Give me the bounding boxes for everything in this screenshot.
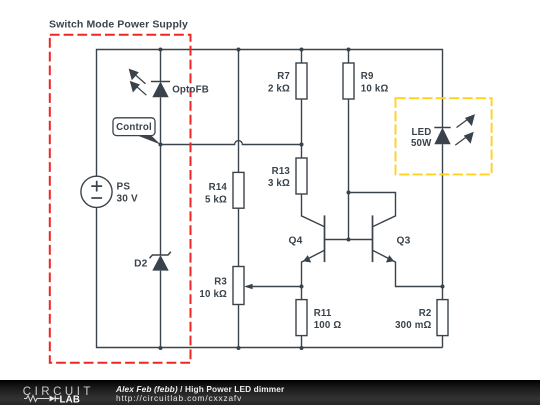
svg-text:10 kΩ: 10 kΩ	[199, 289, 227, 300]
wire R7 column	[301, 50, 303, 159]
svg-text:100 Ω: 100 Ω	[314, 320, 342, 331]
resistor R11	[296, 300, 307, 336]
svg-text:Switch Mode Power Supply: Switch Mode Power Supply	[49, 19, 188, 31]
node top-R14	[237, 48, 241, 52]
svg-text:R3: R3	[214, 277, 227, 288]
LED 50W	[434, 115, 474, 145]
annotation red box	[50, 35, 191, 363]
wire base rail	[325, 239, 373, 241]
wire OptoFB column	[160, 50, 162, 348]
potentiometer R3	[233, 267, 253, 305]
wire left column bottom	[97, 207, 161, 347]
diode OptoFB	[130, 70, 171, 98]
transistor Q4	[303, 215, 325, 262]
wire bottom rail	[161, 347, 443, 349]
svg-text:LED: LED	[412, 127, 432, 138]
CircuitLab logo	[0, 380, 100, 405]
svg-text:3 kΩ: 3 kΩ	[268, 178, 290, 189]
node Control flag	[113, 118, 161, 145]
wire R14 column	[238, 50, 240, 348]
wire top rail	[97, 50, 443, 177]
svg-text:R2: R2	[419, 308, 432, 319]
svg-text:300 mΩ: 300 mΩ	[395, 320, 431, 331]
node LED-R2	[441, 285, 445, 289]
wire R11 stubs	[301, 287, 303, 348]
node top-R7	[300, 48, 304, 52]
wire Q3 collector bracket	[349, 193, 396, 227]
node wiper-R11	[300, 285, 304, 289]
node R7-R13	[300, 143, 304, 147]
svg-text:R7: R7	[277, 71, 290, 82]
node bot-D2	[159, 346, 163, 350]
resistor R14	[233, 172, 244, 208]
source PS	[81, 176, 112, 207]
annotation yellow box	[396, 98, 492, 174]
wire LED to R2	[442, 144, 444, 347]
svg-text:10 kΩ: 10 kΩ	[361, 84, 389, 95]
svg-text:Q4: Q4	[289, 236, 303, 247]
node top-opto	[159, 48, 163, 52]
svg-text:2 kΩ: 2 kΩ	[268, 84, 290, 95]
node bot-R11	[300, 346, 304, 350]
svg-text:5 kΩ: 5 kΩ	[205, 194, 227, 205]
svg-text:D2: D2	[134, 259, 148, 270]
wire control to R7 node with hop	[161, 141, 302, 145]
node base	[347, 238, 351, 242]
node mirror-top	[347, 191, 351, 195]
resistor R9	[343, 63, 354, 99]
resistor R2	[437, 300, 448, 336]
footer credit text	[116, 385, 284, 404]
svg-text:30 V: 30 V	[117, 194, 139, 205]
svg-text:Q3: Q3	[397, 236, 411, 247]
svg-text:PS: PS	[117, 182, 131, 193]
wire Q4 emitter	[302, 250, 325, 286]
svg-text:R14: R14	[209, 182, 228, 193]
node bot-R3	[237, 346, 241, 350]
node top-R9	[347, 48, 351, 52]
resistor R7	[296, 63, 307, 99]
svg-text:50W: 50W	[411, 138, 432, 149]
wire R9 column	[348, 50, 350, 240]
resistor R13	[296, 158, 307, 194]
svg-text:OptoFB: OptoFB	[172, 85, 209, 96]
zener D2	[150, 252, 171, 271]
wire Q3 emitter	[373, 250, 444, 286]
svg-text:LAB: LAB	[60, 394, 81, 405]
wire Q4 collector	[302, 194, 325, 227]
node control	[159, 143, 163, 147]
transistor Q3	[373, 215, 395, 262]
footer bar	[0, 380, 540, 405]
svg-text:R9: R9	[361, 71, 374, 82]
svg-text:R13: R13	[272, 166, 291, 177]
svg-text:R11: R11	[314, 308, 332, 319]
svg-text:Control: Control	[116, 122, 152, 133]
wire R3 wiper rail	[246, 286, 302, 288]
